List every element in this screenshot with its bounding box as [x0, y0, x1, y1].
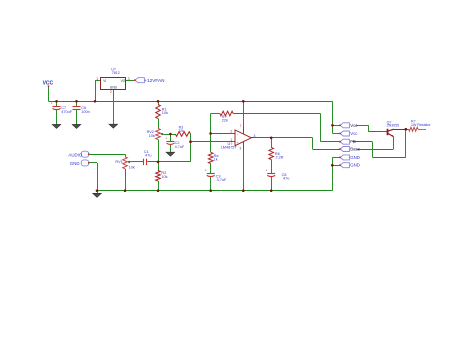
svg-text:GND: GND: [70, 161, 80, 166]
svg-text:GND: GND: [350, 163, 360, 168]
svg-text:VI: VI: [103, 79, 106, 83]
svg-text:GND: GND: [350, 155, 360, 160]
svg-text:10k: 10k: [162, 111, 168, 115]
svg-text:Vcc: Vcc: [350, 131, 358, 136]
svg-text:1W Resistor: 1W Resistor: [411, 123, 431, 127]
svg-text:7812: 7812: [112, 71, 120, 75]
svg-text:+: +: [165, 137, 167, 141]
svg-text:RV1: RV1: [115, 160, 122, 164]
svg-text:10k: 10k: [129, 166, 135, 170]
svg-text:22k: 22k: [178, 129, 184, 133]
svg-text:2: 2: [230, 130, 232, 134]
svg-text:Vcc: Vcc: [350, 123, 358, 128]
svg-text:LM4875T: LM4875T: [221, 146, 238, 150]
svg-text:470uF: 470uF: [61, 110, 72, 114]
svg-text:AUDIO: AUDIO: [68, 152, 82, 157]
svg-text:4: 4: [254, 134, 256, 138]
svg-text:+: +: [265, 169, 267, 173]
svg-text:+: +: [237, 141, 239, 145]
svg-text:2N3055: 2N3055: [387, 123, 400, 127]
svg-text:1: 1: [230, 138, 232, 142]
svg-text:+12VFAN: +12VFAN: [144, 78, 164, 83]
svg-text:1: 1: [96, 77, 98, 81]
svg-text:47u: 47u: [145, 154, 151, 158]
svg-text:3: 3: [239, 147, 241, 151]
svg-text:47u: 47u: [283, 176, 289, 180]
svg-text:10k: 10k: [161, 175, 167, 179]
svg-text:Base: Base: [350, 147, 360, 152]
svg-text:22k: 22k: [222, 119, 228, 123]
svg-text:FB: FB: [350, 139, 356, 144]
svg-text:2: 2: [110, 90, 112, 94]
svg-text:10k: 10k: [149, 134, 155, 138]
svg-text:VO: VO: [121, 79, 126, 83]
svg-text:4.7uF: 4.7uF: [175, 145, 185, 149]
svg-text:3: 3: [128, 77, 130, 81]
svg-text:VCC: VCC: [43, 80, 54, 86]
svg-text:GND: GND: [110, 85, 118, 89]
svg-text:7: 7: [240, 124, 242, 128]
svg-text:+: +: [51, 102, 53, 106]
svg-text:4.7uF: 4.7uF: [217, 178, 227, 182]
svg-text:+: +: [205, 169, 207, 173]
svg-text:100n: 100n: [81, 110, 89, 114]
svg-text:2.2R: 2.2R: [276, 156, 284, 160]
svg-text:1k: 1k: [214, 158, 218, 162]
svg-text:-: -: [237, 132, 239, 136]
